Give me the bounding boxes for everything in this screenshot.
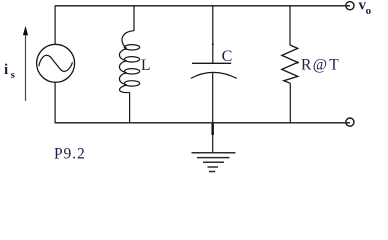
svg-text:i: i — [4, 62, 8, 78]
svg-text:C: C — [222, 48, 233, 65]
ground — [192, 152, 236, 154]
node zigzag dot — [297, 61, 299, 63]
node bottom-right terminal — [346, 118, 354, 126]
current source is — [37, 44, 75, 82]
wire inductor top stem — [133, 6, 135, 31]
wire capacitor bottom stem — [212, 72, 214, 153]
wire junction thick segment — [211, 124, 213, 135]
wire capacitor top stem — [212, 6, 214, 64]
wire resistor top stem — [289, 6, 291, 45]
svg-text:T: T — [329, 57, 339, 74]
arrow current direction — [25, 33, 27, 101]
inductor L — [122, 31, 134, 49]
svg-text:P9.2: P9.2 — [54, 146, 86, 163]
wire source bottom stem — [54, 82, 56, 123]
capacitor C — [192, 62, 231, 64]
node vo terminal — [346, 2, 354, 10]
node junction dot — [212, 43, 214, 45]
svg-text:@: @ — [313, 57, 327, 74]
wire bottom bus — [55, 122, 350, 124]
svg-text:L: L — [141, 57, 150, 74]
svg-text:s: s — [11, 69, 16, 81]
wire source top stem — [54, 6, 56, 45]
wire top bus — [55, 5, 350, 7]
svg-text:o: o — [366, 5, 372, 17]
wire inductor bottom stem — [129, 92, 131, 122]
wire resistor bottom stem — [289, 83, 291, 123]
svg-text:R: R — [301, 57, 312, 74]
resistor R — [282, 45, 298, 83]
